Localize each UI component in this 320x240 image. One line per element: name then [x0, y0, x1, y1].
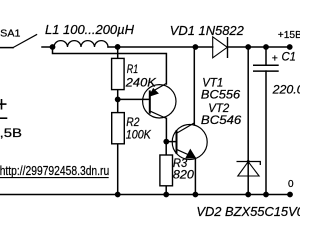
wire: ground bottom rail: [0, 194, 290, 196]
wire: L1 to R1 node to VD1 anode (SW net): [108, 46, 213, 48]
svg-text:http://299792458.3dn.ru: http://299792458.3dn.ru: [0, 163, 109, 178]
wire: C1 top lead: [265, 47, 267, 65]
wire: VT2 collector vertical to top rail: [193, 47, 195, 125]
wire: VD2 zener lead from +15V rail to ground rail: [247, 47, 249, 195]
svg-text:220.0: 220.0: [272, 82, 300, 96]
svg-text:VD1 1N5822: VD1 1N5822: [170, 23, 245, 38]
wire: node A to R3 top lead: [165, 142, 167, 155]
battery plate stub: [0, 117, 7, 119]
svg-text:0: 0: [288, 179, 294, 190]
svg-text:SA1: SA1: [0, 29, 21, 40]
wire: top rail from switch to L1: [42, 46, 54, 48]
switch SA1 left lead wire: [0, 47, 13, 49]
junction node dot R1/R2/VT1 base: [115, 97, 121, 103]
resistor R3: [160, 155, 173, 186]
battery plus sign: [0, 99, 7, 110]
wire: R3 bottom lead to ground rail: [165, 186, 167, 195]
inductor L1 coil: [54, 41, 108, 47]
svg-text:,5В: ,5В: [0, 127, 22, 140]
wire: R2 bottom lead to ground rail: [117, 144, 119, 195]
svg-text:+15В: +15В: [278, 30, 300, 41]
junction node dot A: VT1 collector / VT2 base / R3: [163, 139, 169, 145]
svg-text:VD2 BZX55C15V0: VD2 BZX55C15V0: [196, 204, 300, 219]
svg-text:L1 100...200µH: L1 100...200µH: [45, 22, 135, 37]
resistor R1: [112, 58, 125, 89]
svg-text:820: 820: [173, 167, 194, 181]
wire: VD1 cathode to +15V terminal: [228, 46, 290, 48]
resistor R2: [112, 113, 125, 144]
wire: R1 bottom lead to node: [117, 90, 119, 100]
wire: VT2 emitter down to ground rail: [194, 159, 196, 195]
svg-text:240K: 240K: [125, 76, 157, 90]
diode VD1 1N5822: [213, 37, 228, 58]
svg-text:C1: C1: [282, 49, 296, 63]
svg-text:BC556: BC556: [201, 88, 241, 102]
wire: node to R2 top lead: [117, 99, 119, 112]
wire: VT1 base wire: [118, 98, 150, 100]
zener diode VD2: [237, 160, 261, 176]
wire: VT1 collector vertical down to node A: [165, 118, 167, 141]
wire: R1 top lead: [117, 47, 119, 58]
junction node dots top rail: [50, 44, 293, 50]
wire: C1 bottom lead to ground rail: [265, 71, 267, 194]
underline of url: [0, 177, 109, 179]
capacitor C1 plates: [253, 65, 279, 71]
transistor VT2 (NPN BC546): [172, 123, 207, 160]
svg-text:+: +: [272, 53, 278, 65]
transistor VT1 (PNP BC556): [143, 83, 176, 118]
svg-text:BC546: BC546: [201, 113, 242, 127]
wire: VT2 base wire: [166, 141, 176, 143]
junction node dots ground rail: [115, 192, 293, 198]
switch SA1 arm: [13, 35, 37, 48]
svg-text:R1: R1: [127, 62, 138, 76]
wire: bypass from input node down and under L1 to VT1 emitter: [53, 47, 167, 84]
svg-text:100K: 100K: [126, 127, 152, 141]
